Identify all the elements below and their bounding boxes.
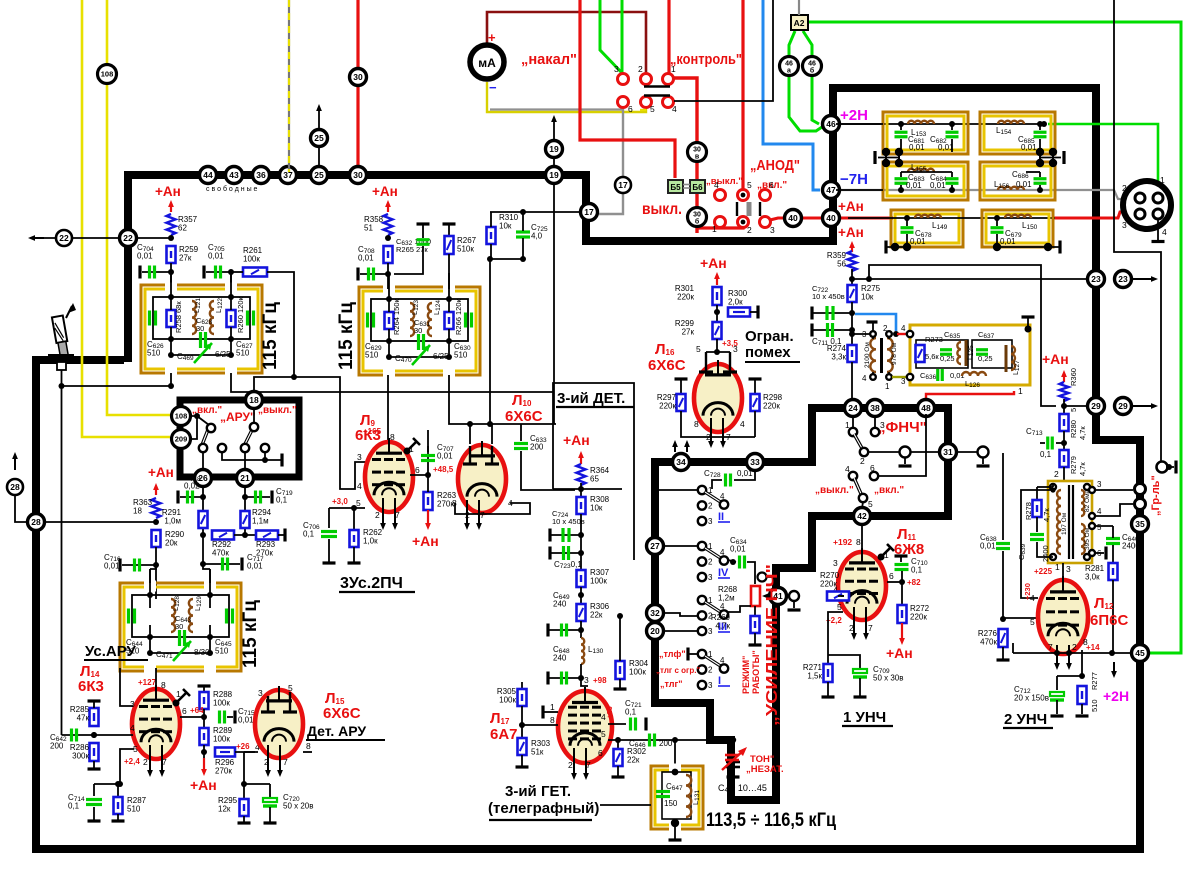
terminal 37 bbox=[280, 167, 297, 184]
svg-text:Б6: Б6 bbox=[692, 183, 703, 192]
svg-text:а: а bbox=[787, 68, 791, 75]
svg-text:50 х 20в: 50 х 20в bbox=[283, 802, 314, 811]
can1 antenna node bbox=[168, 383, 174, 389]
IF can 1 wire b bbox=[230, 271, 232, 310]
R295 lead bbox=[243, 784, 245, 799]
svg-text:18: 18 bbox=[249, 395, 259, 405]
svg-text:4: 4 bbox=[720, 492, 725, 501]
OT term topL bbox=[1050, 484, 1056, 490]
IF can 2 cap right label bbox=[454, 342, 471, 360]
svg-text:3: 3 bbox=[357, 452, 362, 462]
R363 node bbox=[153, 519, 159, 525]
Dr c2 stub bbox=[888, 337, 890, 339]
C648 tbar bbox=[546, 672, 549, 685]
L15 heater arrows bbox=[265, 745, 271, 777]
R289 node bbox=[201, 749, 207, 755]
L131 bot dot bbox=[671, 819, 679, 827]
label C633 bbox=[530, 434, 547, 452]
svg-text:56: 56 bbox=[837, 260, 846, 269]
svg-text:1: 1 bbox=[712, 224, 717, 234]
R295 gnd bar bbox=[238, 821, 251, 824]
label R275 bbox=[861, 284, 881, 302]
antenna wire right bbox=[62, 385, 172, 387]
svg-text:6: 6 bbox=[598, 748, 603, 758]
label C709 bbox=[873, 665, 904, 683]
label C706 bbox=[303, 521, 320, 539]
bank III 4 wire bbox=[728, 606, 751, 612]
C722 tbar bbox=[810, 307, 813, 320]
DetARU underline bbox=[306, 739, 385, 741]
bank IV roman underline bbox=[718, 577, 730, 579]
OT 5 wire bbox=[1095, 525, 1113, 527]
R274 down bbox=[851, 362, 853, 399]
svg-text:4: 4 bbox=[720, 656, 725, 665]
svg-text:6/25: 6/25 bbox=[215, 350, 231, 359]
speaker jack wire bbox=[1169, 466, 1174, 468]
svg-text:4: 4 bbox=[901, 324, 906, 333]
C724 tbar a bbox=[548, 529, 551, 542]
antenna symbol bbox=[52, 315, 70, 356]
chassis border: right vertical upper bbox=[1092, 84, 1100, 444]
label C716 bbox=[104, 553, 121, 571]
svg-text:+Ан: +Ан bbox=[190, 777, 217, 793]
IF can 2 wire a2 bbox=[388, 329, 390, 357]
L9 pin8 wire bbox=[387, 375, 389, 448]
bank III c1 bbox=[698, 596, 706, 604]
IF can 1 bottom link bbox=[171, 354, 231, 356]
svg-text:+Ан: +Ан bbox=[838, 225, 864, 240]
label R276 bbox=[978, 629, 998, 647]
tube L14 bbox=[132, 685, 180, 759]
terminal 22 thin bbox=[56, 230, 72, 246]
label R259 bbox=[179, 245, 199, 263]
rail dot R 1040 top bbox=[1036, 148, 1044, 156]
resistor R299 bbox=[713, 322, 722, 339]
R292-R293 link bbox=[234, 534, 256, 536]
dot row3 b bbox=[994, 215, 1000, 221]
cathode dot bbox=[115, 781, 121, 787]
terminal 19 column bbox=[553, 184, 555, 424]
svg-text:12к: 12к bbox=[218, 805, 231, 814]
IF can 1 dot a3 bbox=[168, 352, 174, 358]
cap C707 bbox=[421, 456, 435, 461]
osc fb wire bbox=[600, 804, 651, 806]
aru contact nc2 bbox=[261, 444, 269, 452]
C722 dot bbox=[849, 310, 855, 316]
resistor R259 bbox=[167, 246, 176, 263]
tlf wire bbox=[688, 653, 697, 655]
anod contact 6 bbox=[760, 190, 771, 201]
C682 lead bbox=[951, 124, 953, 130]
svg-text:220к: 220к bbox=[659, 402, 676, 411]
R302 gnd bbox=[617, 766, 619, 776]
svg-text:4: 4 bbox=[1162, 227, 1167, 237]
terminal 46 bbox=[823, 116, 840, 133]
R301 node bbox=[714, 309, 720, 315]
svg-text:2: 2 bbox=[708, 502, 713, 511]
terminal 209 bbox=[172, 430, 191, 449]
osc node bbox=[730, 737, 736, 743]
antenna base bbox=[48, 354, 74, 358]
svg-text:0,1: 0,1 bbox=[303, 530, 315, 539]
terminal 19 on bus bbox=[546, 167, 563, 184]
R294 node bbox=[242, 532, 248, 538]
cap C725 bbox=[516, 232, 530, 237]
L14 grid node wire bbox=[62, 734, 134, 736]
resistor R297 bbox=[677, 394, 686, 411]
aru contact 26 bbox=[199, 444, 207, 452]
resistor R272 bbox=[898, 605, 907, 623]
bank IV c3 bbox=[698, 573, 706, 581]
rail dot pin2 bbox=[1066, 650, 1072, 656]
svg-text:46: 46 bbox=[808, 61, 816, 68]
svg-text:3,3к: 3,3к bbox=[831, 353, 846, 362]
IF can 1 res right bbox=[227, 310, 236, 327]
af block right vertical bbox=[772, 564, 780, 804]
terminal 28 border bbox=[28, 514, 45, 531]
chassis border: heater block vertical bbox=[829, 84, 837, 245]
L17 pin1 tbar bbox=[541, 706, 544, 719]
svg-text:в: в bbox=[695, 154, 700, 161]
red wire B6 down bbox=[695, 193, 698, 233]
svg-text:17: 17 bbox=[618, 180, 628, 190]
speaker jack dot bbox=[1166, 464, 1172, 470]
FNCh inner left bbox=[916, 340, 968, 368]
terminal 40b bbox=[785, 210, 802, 227]
svg-text:10к: 10к bbox=[861, 293, 874, 302]
svg-text:выкл.: выкл. bbox=[642, 201, 682, 218]
svg-text:38: 38 bbox=[870, 403, 880, 413]
Dr blue node bbox=[893, 331, 899, 337]
coil L125 winding bbox=[957, 342, 961, 364]
L14 cathode node bbox=[117, 781, 123, 787]
C712 gnd bbox=[1056, 700, 1058, 714]
row3 gnd wire b bbox=[997, 246, 1060, 248]
coil L156 bbox=[998, 187, 1024, 190]
row3 right tbar bbox=[1058, 241, 1061, 254]
C710 tbar bbox=[895, 554, 908, 557]
label C642 bbox=[50, 733, 67, 751]
svg-text:3: 3 bbox=[1097, 480, 1102, 489]
wire 46 to filter bbox=[840, 123, 1044, 125]
label R304 bbox=[629, 659, 649, 677]
C684 gnd bbox=[951, 185, 953, 190]
fnch 5 to 42 bbox=[862, 502, 863, 508]
svg-text:6: 6 bbox=[415, 465, 420, 475]
svg-text:+Ан: +Ан bbox=[372, 184, 398, 199]
svg-text:5: 5 bbox=[288, 683, 293, 693]
af block bottom bbox=[727, 796, 776, 804]
C686 gnd bbox=[1039, 185, 1041, 190]
svg-text:0,1: 0,1 bbox=[1040, 450, 1052, 459]
IF can 3 wire b2 bbox=[209, 625, 211, 653]
svg-text:4: 4 bbox=[672, 104, 677, 114]
filter box L153 bbox=[883, 112, 968, 154]
R364 +An arrow bbox=[578, 451, 584, 464]
gnd contact a bar bbox=[899, 464, 912, 467]
svg-text:0,25: 0,25 bbox=[940, 354, 955, 363]
svg-text:0,01: 0,01 bbox=[137, 252, 153, 261]
IF can 3 cap left label bbox=[126, 638, 143, 656]
L15 cath col bbox=[244, 752, 270, 784]
label R363 bbox=[133, 498, 153, 516]
coil L155 bbox=[908, 169, 934, 172]
svg-text:6А7: 6А7 bbox=[490, 726, 518, 743]
Dr wire from column bbox=[852, 333, 870, 335]
R310 dot bbox=[487, 256, 493, 262]
dot 265 branch bbox=[866, 276, 872, 282]
terminal 44 bbox=[200, 167, 217, 184]
IF can 3 wire a2 bbox=[149, 625, 151, 653]
bank II c2 bbox=[698, 501, 706, 509]
svg-text:31: 31 bbox=[943, 447, 953, 457]
svg-text:−: − bbox=[489, 80, 497, 95]
IF can 3 dot b bbox=[207, 592, 213, 598]
C649 dot bbox=[578, 627, 584, 633]
rail dot R281 bbox=[1109, 650, 1115, 656]
kontrol contact 4 bbox=[663, 97, 674, 108]
cap C679 bbox=[991, 228, 1004, 233]
label R290 bbox=[165, 530, 185, 548]
filter box L154 bbox=[980, 112, 1055, 154]
R287 gnd lead bbox=[117, 814, 119, 820]
FNCh gnd wire bbox=[1027, 317, 1029, 328]
wire 28 bbox=[15, 496, 156, 522]
C649 wire bbox=[549, 629, 581, 631]
R307 node bbox=[578, 592, 584, 598]
terminal 108 bbox=[172, 407, 191, 426]
rail stub L 899 bbox=[898, 148, 900, 166]
IF can 1 can bbox=[141, 283, 262, 376]
IF can 3 coil right bbox=[189, 599, 193, 632]
C713 lead bbox=[1040, 442, 1045, 444]
cap C724 bbox=[563, 528, 569, 542]
svg-text:2: 2 bbox=[1122, 183, 1127, 193]
svg-text:28: 28 bbox=[10, 482, 20, 492]
C725 dot b bbox=[520, 256, 526, 262]
wire kontrol4 right bbox=[674, 0, 773, 101]
resistor R289 bbox=[200, 728, 209, 745]
label R267 bbox=[457, 236, 477, 254]
label C715 bbox=[238, 707, 255, 725]
IF can 2 trimmer bbox=[412, 345, 430, 365]
svg-text:150: 150 bbox=[664, 799, 678, 808]
detector section frame bbox=[553, 383, 634, 560]
C723 dot bbox=[578, 550, 584, 556]
fnch wire 2 bbox=[868, 451, 978, 453]
resistor R280 bbox=[1060, 414, 1069, 431]
R267 top lead bbox=[448, 224, 450, 236]
svg-text:270к: 270к bbox=[215, 767, 232, 776]
34 arrow a bbox=[672, 440, 678, 452]
resistor R274 bbox=[848, 345, 857, 362]
af block top right bbox=[772, 564, 812, 572]
L10 heater arrows bbox=[476, 500, 482, 530]
svg-text:0,01: 0,01 bbox=[1016, 180, 1032, 189]
L15 pin8 wire bbox=[303, 751, 312, 753]
FNCh inner right bbox=[972, 340, 1012, 368]
resistor R292 bbox=[212, 531, 234, 540]
svg-text:+98: +98 bbox=[593, 676, 607, 685]
C717-can3 wire bbox=[203, 564, 210, 569]
OT fb dot bbox=[1050, 487, 1055, 492]
fnch wire 6 bbox=[878, 414, 926, 476]
wire 26 down bbox=[202, 452, 204, 469]
socket loop wire bbox=[1114, 0, 1161, 462]
L15 cath dot bbox=[241, 781, 247, 787]
terminal 25 upper bbox=[311, 130, 328, 147]
aru lever 1 bbox=[202, 427, 209, 445]
svg-text:+2Н: +2Н bbox=[1103, 688, 1129, 704]
svg-text:115 кГц: 115 кГц bbox=[336, 302, 357, 370]
aru contact nc1 bbox=[218, 444, 226, 452]
L131 box bbox=[651, 764, 703, 832]
svg-text:4: 4 bbox=[740, 419, 745, 429]
svg-text:24: 24 bbox=[848, 403, 858, 413]
cap C716 bbox=[135, 559, 140, 572]
svg-text:46: 46 bbox=[826, 119, 836, 129]
C632 lead bbox=[422, 224, 424, 238]
svg-text:3: 3 bbox=[708, 517, 713, 526]
svg-text:6Х6С: 6Х6С bbox=[648, 357, 686, 374]
R297 lead a bbox=[680, 379, 682, 394]
C706 gnd bbox=[323, 561, 336, 564]
R360 node bbox=[1061, 403, 1067, 409]
svg-text:7: 7 bbox=[868, 623, 873, 633]
L12 heater arrows bbox=[1066, 645, 1072, 670]
speaker contact lower bbox=[1135, 499, 1146, 510]
svg-text:2 УНЧ: 2 УНЧ bbox=[1004, 711, 1047, 728]
svg-text:+Ан: +Ан bbox=[412, 533, 439, 549]
C707 lead bbox=[427, 446, 429, 475]
C640-R281 bbox=[1112, 545, 1114, 563]
svg-text:+3,0: +3,0 bbox=[332, 497, 348, 506]
svg-text:21: 21 bbox=[240, 473, 250, 483]
wire 22 row bbox=[44, 237, 171, 239]
IF can 1 wire b2 bbox=[230, 327, 232, 355]
svg-text:4: 4 bbox=[720, 602, 725, 611]
cap C632 bbox=[417, 240, 430, 245]
R262 lead bbox=[353, 508, 355, 530]
bank II roman underline bbox=[718, 521, 730, 523]
label R288 bbox=[213, 690, 233, 708]
green output wire right bbox=[807, 22, 1181, 653]
can1 out wire bbox=[170, 373, 172, 386]
fnch lever 2 bbox=[854, 478, 862, 496]
L17 heater arrows bbox=[583, 748, 589, 780]
L9 heater arrows bbox=[392, 498, 398, 530]
dot row2 b bbox=[949, 187, 955, 193]
R271 gnd bbox=[827, 682, 829, 696]
svg-text:„тлг": „тлг" bbox=[660, 679, 683, 689]
L11 heater arrows bbox=[851, 607, 857, 640]
terminal 33 bbox=[747, 454, 764, 471]
L131 gnd wire bbox=[674, 826, 676, 839]
R305 col bbox=[521, 682, 523, 689]
cap C683 bbox=[895, 179, 908, 184]
R310 lead b bbox=[490, 244, 492, 259]
dot row1 c bbox=[1037, 121, 1043, 127]
IF can 2 inner box bbox=[371, 299, 468, 341]
label R296 bbox=[215, 758, 235, 776]
cap C714 bbox=[86, 800, 102, 805]
R267 bottom lead bbox=[448, 254, 450, 289]
svg-text:36: 36 bbox=[256, 170, 266, 180]
svg-text:РАБОТЫ": РАБОТЫ" bbox=[751, 650, 761, 694]
terminal 34 bbox=[673, 454, 690, 471]
svg-text:3,0к: 3,0к bbox=[1085, 573, 1100, 582]
gnd contact c bbox=[758, 573, 767, 582]
1UNCh underline bbox=[842, 725, 893, 727]
R298 lead b bbox=[754, 411, 756, 437]
wire ARU to L9 grid bbox=[294, 377, 368, 489]
L10 grid wire a bbox=[469, 424, 471, 444]
IF can 2 cap mid label bbox=[414, 318, 431, 335]
label R285 bbox=[70, 705, 90, 723]
label R364 bbox=[590, 466, 610, 484]
label R289 bbox=[213, 726, 233, 744]
C704 tbar bbox=[138, 266, 141, 279]
L15 heater arrows bbox=[277, 745, 283, 777]
rail dot L 886 top bbox=[882, 148, 890, 156]
R293 right bbox=[278, 534, 284, 536]
cap C637 bbox=[976, 350, 988, 355]
svg-text:3: 3 bbox=[584, 675, 589, 685]
L16 grid bracket bbox=[706, 351, 730, 353]
chassis border: mid-left vertical bbox=[582, 171, 590, 245]
svg-text:19: 19 bbox=[549, 170, 559, 180]
blue bias wire bbox=[763, 0, 820, 190]
bank I c1 bbox=[698, 650, 706, 658]
21 column bbox=[244, 487, 246, 535]
resistor R293 bbox=[256, 531, 278, 540]
resistor R296 bbox=[215, 748, 235, 757]
svg-text:2: 2 bbox=[568, 760, 573, 770]
terminal 24 bbox=[845, 400, 862, 417]
terminal 46b bbox=[803, 57, 822, 76]
R303 gnd bbox=[521, 755, 523, 766]
cap C728 bbox=[726, 474, 731, 487]
svg-text:240: 240 bbox=[553, 600, 567, 609]
svg-text:35: 35 bbox=[1135, 519, 1145, 529]
connector A2 bbox=[791, 15, 808, 30]
R287 gnd bbox=[112, 819, 125, 822]
cap C718 bbox=[188, 491, 193, 504]
connector B5 bbox=[668, 180, 683, 193]
R287 lead bbox=[117, 784, 119, 797]
svg-text:3-ий ДЕТ.: 3-ий ДЕТ. bbox=[557, 390, 625, 407]
svg-text:62: 62 bbox=[178, 224, 187, 233]
L12 pin3 wire bbox=[1062, 563, 1064, 581]
label C708 bbox=[358, 245, 375, 263]
blue afc wire bbox=[855, 314, 896, 331]
resistor R358 bbox=[382, 214, 394, 235]
resistor R279 bbox=[1060, 450, 1069, 467]
antenna lead bbox=[61, 370, 63, 386]
coil L153 bbox=[908, 121, 934, 124]
bank IV lever bbox=[705, 548, 722, 559]
cap C681 bbox=[895, 132, 908, 137]
L14 pin3 wire bbox=[120, 668, 133, 706]
R269 gnd bbox=[754, 633, 756, 644]
svg-text:30: 30 bbox=[353, 170, 363, 180]
filter box L155 bbox=[883, 162, 968, 200]
dot 18 R261 node bbox=[291, 374, 297, 380]
cap C640 bbox=[1106, 539, 1120, 544]
rail stub L 886 bbox=[885, 148, 887, 166]
label R287 bbox=[127, 796, 147, 814]
L16 diode electrodes bbox=[699, 352, 737, 372]
